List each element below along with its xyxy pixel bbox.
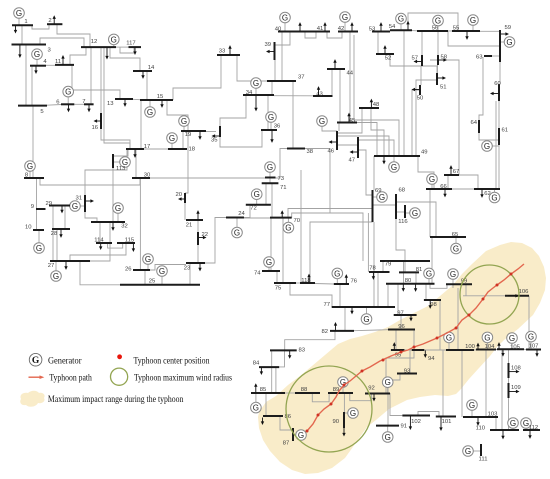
load arrow bus 4: [34, 66, 37, 74]
load arrow bus 3: [18, 45, 21, 58]
generator G at bus 55: [468, 15, 479, 31]
load arrow bus 94: [424, 350, 427, 358]
load arrow bus 15: [160, 100, 163, 108]
bus 85: [251, 392, 285, 394]
wire 49-66: [418, 156, 434, 189]
load arrow bus 108: [509, 370, 520, 373]
svg-text:49: 49: [421, 150, 428, 156]
svg-text:75: 75: [275, 286, 282, 292]
bus 47: [357, 137, 359, 158]
wire 33-37: [237, 55, 267, 81]
generator G at bus 61: [482, 141, 499, 152]
bus 18: [168, 148, 187, 150]
wire 94-96: [413, 330, 415, 351]
svg-text:G: G: [484, 142, 490, 151]
load arrow bus 103: [476, 417, 479, 426]
load arrow bus 106: [508, 294, 519, 297]
wire 62-67: [459, 175, 478, 189]
svg-text:56: 56: [432, 26, 439, 32]
label 64: [470, 120, 477, 126]
wire 105-107: [524, 348, 526, 350]
bus 35: [219, 126, 221, 137]
bus 41: [310, 31, 330, 33]
wire 12-14: [110, 47, 140, 71]
svg-text:112: 112: [529, 425, 538, 431]
bus 90: [343, 412, 345, 428]
svg-text:31: 31: [75, 196, 82, 202]
wire 68-81: [396, 219, 405, 272]
wire 16-17: [101, 129, 130, 149]
bus 6: [61, 103, 74, 105]
label 66: [440, 184, 447, 190]
svg-text:73: 73: [278, 176, 285, 182]
svg-text:48: 48: [373, 102, 380, 108]
wire 56-57: [421, 31, 423, 55]
label 72: [250, 206, 257, 212]
svg-text:G: G: [111, 35, 117, 44]
generator G at bus 26: [143, 254, 154, 270]
wire 11-13: [72, 65, 120, 99]
label 40: [275, 27, 282, 33]
label 23: [184, 266, 191, 272]
typhoon center position 8: [413, 346, 416, 349]
load arrow bus 11: [61, 55, 64, 65]
label 15: [157, 94, 164, 100]
svg-text:G: G: [145, 255, 151, 264]
load arrow bus 110: [501, 430, 504, 439]
svg-text:30: 30: [144, 173, 151, 179]
generator G at bus 103: [467, 400, 478, 417]
load arrow bus 90: [342, 428, 345, 437]
wire 78-79: [382, 261, 384, 272]
label 5: [40, 109, 44, 115]
label 97: [397, 311, 404, 317]
svg-text:G: G: [379, 193, 385, 202]
wire 34-36: [267, 95, 269, 130]
bus 102: [402, 415, 430, 417]
load arrow bus 107: [535, 350, 538, 357]
svg-text:G: G: [234, 228, 240, 237]
wire 27-29: [52, 206, 54, 262]
svg-text:41: 41: [317, 26, 324, 32]
bus 71: [262, 182, 279, 184]
bus 5: [18, 105, 47, 107]
wire 15-19: [167, 100, 188, 131]
wire 70-74: [270, 218, 272, 271]
wire 83-84: [279, 351, 284, 367]
wire 35-34: [220, 95, 246, 126]
wire 89-92 hook: [350, 394, 372, 401]
bus 44: [327, 68, 345, 70]
wire 49-54: [403, 30, 405, 156]
label 99: [461, 279, 468, 285]
svg-text:94: 94: [428, 356, 435, 362]
svg-text:G: G: [266, 258, 272, 267]
bus 116: [404, 205, 406, 218]
wire 105-108: [508, 349, 510, 363]
svg-text:G: G: [36, 244, 42, 253]
svg-text:G: G: [412, 209, 418, 218]
bus 67: [444, 174, 459, 176]
generator G at bus 42: [340, 12, 351, 32]
svg-text:90: 90: [332, 419, 339, 425]
bus 96: [388, 329, 415, 331]
bus 98: [424, 299, 441, 301]
label 44: [347, 71, 354, 77]
label 38: [307, 149, 314, 155]
bus 106: [505, 295, 529, 297]
load arrow bus 21: [196, 210, 199, 220]
wire 4-5: [31, 66, 33, 106]
wire 24-70: [244, 217, 270, 219]
bus 14: [133, 70, 152, 72]
generator G at bus 6: [63, 86, 74, 104]
label 14: [148, 65, 155, 71]
svg-text:66: 66: [440, 184, 447, 190]
label 116: [398, 219, 408, 225]
label 102: [411, 419, 421, 425]
bus 61: [498, 128, 500, 145]
svg-text:11: 11: [55, 59, 61, 65]
label 105: [510, 345, 521, 351]
wire 83-85: [271, 350, 273, 392]
wire 21-22: [197, 220, 199, 232]
svg-text:102: 102: [411, 419, 421, 425]
wire 100-104: [474, 349, 476, 351]
wire 54-55 loop: [408, 13, 458, 31]
wire 103-104: [485, 350, 487, 418]
bus 65: [430, 236, 466, 238]
label 6: [56, 100, 60, 106]
label 35: [211, 138, 218, 144]
label 106: [519, 289, 530, 295]
label 32: [121, 224, 128, 230]
load arrow bus 115: [132, 244, 135, 252]
generator G at bus 31: [70, 201, 85, 212]
generator G at bus 72: [251, 189, 262, 205]
generator G at bus 66: [427, 174, 438, 189]
svg-text:51: 51: [440, 85, 447, 91]
wire 70-75: [282, 218, 284, 283]
svg-text:G: G: [435, 17, 441, 26]
wire 47-69: [358, 150, 373, 195]
svg-text:86: 86: [285, 414, 292, 420]
label 117: [126, 41, 135, 47]
bus 4: [30, 65, 46, 67]
wire 106 line: [463, 295, 529, 297]
svg-text:87: 87: [283, 441, 290, 447]
label 96: [398, 324, 405, 330]
svg-text:G: G: [53, 272, 59, 281]
label 93: [404, 369, 411, 375]
wire 102-92: [390, 393, 402, 416]
label 83: [299, 348, 306, 354]
load arrow bus 80: [414, 284, 417, 292]
load arrow bus 83: [288, 351, 291, 359]
wire 60-62: [495, 101, 497, 189]
svg-text:59: 59: [505, 25, 512, 31]
label 17: [144, 144, 151, 150]
load arrow bus 54: [406, 21, 409, 30]
wire 34-37: [271, 81, 273, 95]
generator G at bus 46: [317, 116, 337, 131]
label 115: [125, 238, 135, 244]
bus 50: [419, 85, 421, 95]
bus 20: [184, 193, 186, 203]
svg-text:15: 15: [157, 94, 164, 100]
bus 74: [262, 270, 280, 272]
wire 50-57: [420, 66, 422, 85]
bus 86: [263, 415, 283, 417]
legend wind radius circle: [111, 368, 128, 385]
generator G at bus 70: [283, 218, 294, 233]
label 104: [485, 344, 496, 350]
bus 115: [117, 242, 135, 244]
bus 7: [84, 103, 94, 105]
generator G at bus 34: [251, 78, 262, 95]
svg-text:G: G: [426, 269, 432, 278]
load arrow bus 80: [402, 284, 405, 292]
wire 56-58: [437, 31, 439, 55]
bus 91: [376, 425, 399, 427]
typhoon center position 12: [482, 298, 485, 301]
generator G at bus 59: [500, 37, 515, 48]
generator G at bus 87: [293, 430, 306, 441]
svg-text:115: 115: [125, 238, 135, 244]
label 21: [186, 223, 193, 229]
svg-text:G: G: [363, 315, 369, 324]
wire 80-99: [430, 284, 447, 289]
svg-text:16: 16: [91, 125, 98, 131]
generator G at bus 32: [113, 203, 124, 222]
generator G at bus 65: [451, 237, 462, 254]
load arrow bus 53: [379, 22, 382, 31]
wire 75-77: [290, 283, 332, 307]
load arrow bus 12: [105, 48, 108, 60]
load arrow bus 100: [476, 343, 479, 350]
label 63: [476, 55, 483, 61]
svg-text:44: 44: [347, 71, 354, 77]
wire 56-59: [448, 31, 500, 46]
bus 77: [332, 306, 395, 308]
bus 107: [526, 349, 541, 351]
svg-text:63: 63: [476, 55, 483, 61]
label 12: [91, 39, 98, 45]
load arrow bus 112: [528, 430, 531, 439]
wire 77-82: [344, 307, 346, 331]
svg-text:G: G: [391, 163, 397, 172]
typhoon center position 10: [455, 327, 458, 330]
svg-text:83: 83: [299, 348, 306, 354]
generator G at bus 89: [338, 377, 349, 393]
label 25: [149, 279, 156, 285]
svg-text:40: 40: [275, 27, 282, 33]
svg-text:54: 54: [389, 24, 396, 30]
bus 2: [47, 23, 62, 25]
generator G at bus 100: [444, 332, 455, 350]
svg-text:77: 77: [323, 302, 330, 308]
svg-text:70: 70: [294, 218, 301, 224]
label 74: [254, 271, 261, 277]
svg-text:107: 107: [529, 343, 539, 349]
wire 9-10: [36, 209, 38, 230]
label 34: [246, 90, 253, 96]
bus 40: [278, 31, 310, 33]
label 100: [465, 344, 476, 350]
wire 32-114: [99, 222, 101, 243]
wire 69-70: [288, 209, 373, 218]
wire 24-72: [244, 205, 250, 218]
label 73: [278, 176, 285, 182]
wire 37-40: [281, 32, 283, 82]
wire 38-65: [305, 149, 330, 214]
label 87: [283, 441, 290, 447]
svg-text:78: 78: [369, 266, 376, 272]
load arrow bus 19: [198, 131, 201, 140]
svg-text:96: 96: [398, 324, 405, 330]
wire 92-94: [386, 350, 414, 393]
bus 15: [140, 99, 173, 101]
wire 43-44: [331, 69, 333, 96]
label 52: [385, 56, 392, 62]
bus 48: [359, 107, 379, 109]
bus 24: [226, 217, 244, 219]
load arrow bus 14: [141, 71, 144, 79]
bus 37: [267, 80, 296, 82]
bus 1: [12, 24, 33, 26]
load arrow bus 85: [254, 383, 257, 392]
label 70: [294, 218, 301, 224]
load arrow bus 76: [345, 274, 348, 284]
svg-text:65: 65: [452, 232, 459, 238]
wire 55-67: [430, 60, 459, 175]
typhoon center position 3: [330, 403, 333, 406]
load arrow bus 98: [429, 300, 432, 309]
wire 23-26: [150, 265, 186, 271]
label 103: [488, 412, 499, 418]
wire 42-45: [349, 32, 351, 123]
label 7: [82, 99, 85, 105]
svg-text:2: 2: [48, 18, 51, 24]
load arrow bus 2: [53, 15, 56, 23]
bus 69: [372, 190, 374, 222]
svg-text:1: 1: [24, 19, 27, 25]
wire 65-66: [429, 189, 431, 237]
bus 104: [476, 349, 496, 351]
load arrow bus 35: [212, 134, 220, 137]
svg-text:G: G: [32, 356, 40, 366]
label 46: [327, 149, 334, 155]
label 81: [416, 267, 423, 273]
wire 46-48: [337, 108, 362, 133]
svg-text:114: 114: [94, 238, 104, 244]
wire 55-59: [480, 30, 500, 32]
svg-text:80: 80: [405, 278, 412, 284]
load arrow bus 102: [409, 416, 412, 430]
wire 11-12: [70, 47, 86, 65]
svg-text:12: 12: [91, 39, 98, 45]
bus 81: [399, 271, 419, 273]
wire 44-45: [339, 69, 341, 123]
svg-text:42: 42: [338, 26, 345, 32]
wire 63-64: [479, 57, 483, 120]
svg-text:G: G: [159, 267, 165, 276]
label 3: [48, 48, 52, 54]
wire 1-2: [32, 24, 49, 29]
wire 4-11: [46, 64, 55, 66]
wire 59-63: [492, 55, 500, 57]
svg-text:G: G: [350, 409, 356, 418]
wire 77-78: [377, 272, 379, 307]
bus 46: [336, 131, 338, 150]
bus 118: [300, 282, 315, 284]
bus 16: [100, 113, 102, 129]
generator G at bus 105: [507, 333, 518, 350]
bus 70: [270, 217, 292, 219]
label 56: [432, 26, 439, 32]
wire 17-31: [85, 149, 127, 195]
svg-text:92: 92: [368, 386, 375, 392]
label 28: [51, 231, 58, 237]
load arrow bus 1: [14, 26, 17, 34]
legend typhoon path arrow: [29, 375, 45, 379]
wire 79-80: [403, 261, 405, 284]
generator G at bus 76: [332, 268, 343, 284]
svg-text:G: G: [169, 134, 175, 143]
svg-text:32: 32: [121, 224, 128, 230]
legend text typhoon maximum wind radius: [134, 373, 232, 383]
svg-text:G: G: [450, 270, 456, 279]
load arrow bus 22: [199, 236, 207, 239]
svg-text:52: 52: [385, 56, 392, 62]
label 113: [116, 166, 126, 172]
label 98: [430, 302, 437, 308]
load arrow bus 78: [372, 272, 375, 280]
load arrow bus 57: [414, 60, 422, 63]
wire 89-90: [343, 394, 345, 413]
legend typhoon center dot: [117, 354, 122, 359]
wire 69-77: [373, 222, 375, 307]
svg-text:106: 106: [519, 289, 530, 295]
svg-text:26: 26: [125, 267, 132, 273]
load arrow bus 39: [266, 50, 274, 53]
generator G at bus 54: [396, 13, 407, 30]
bus 109: [508, 383, 510, 398]
label 19: [185, 132, 192, 138]
load arrow bus 32: [111, 222, 114, 231]
svg-text:81: 81: [416, 267, 423, 273]
load arrow bus 29: [60, 206, 63, 214]
svg-text:G: G: [27, 162, 33, 171]
wire 27-28: [56, 229, 58, 261]
wire 94-100: [424, 349, 446, 351]
svg-text:13: 13: [107, 101, 114, 107]
load arrow bus 118: [307, 274, 310, 283]
wire 70-69b: [292, 213, 363, 261]
wire 12-117: [116, 46, 129, 48]
svg-text:17: 17: [144, 144, 151, 150]
svg-text:20: 20: [175, 192, 182, 198]
svg-text:39: 39: [264, 42, 271, 48]
load arrow bus 42: [350, 22, 353, 31]
wire 62-66: [452, 188, 474, 190]
generator G at bus 77: [361, 307, 372, 324]
wire 49-50: [412, 90, 420, 156]
label 82: [321, 329, 328, 335]
svg-text:37: 37: [298, 75, 305, 81]
label 54: [389, 24, 396, 30]
svg-text:101: 101: [442, 419, 452, 425]
